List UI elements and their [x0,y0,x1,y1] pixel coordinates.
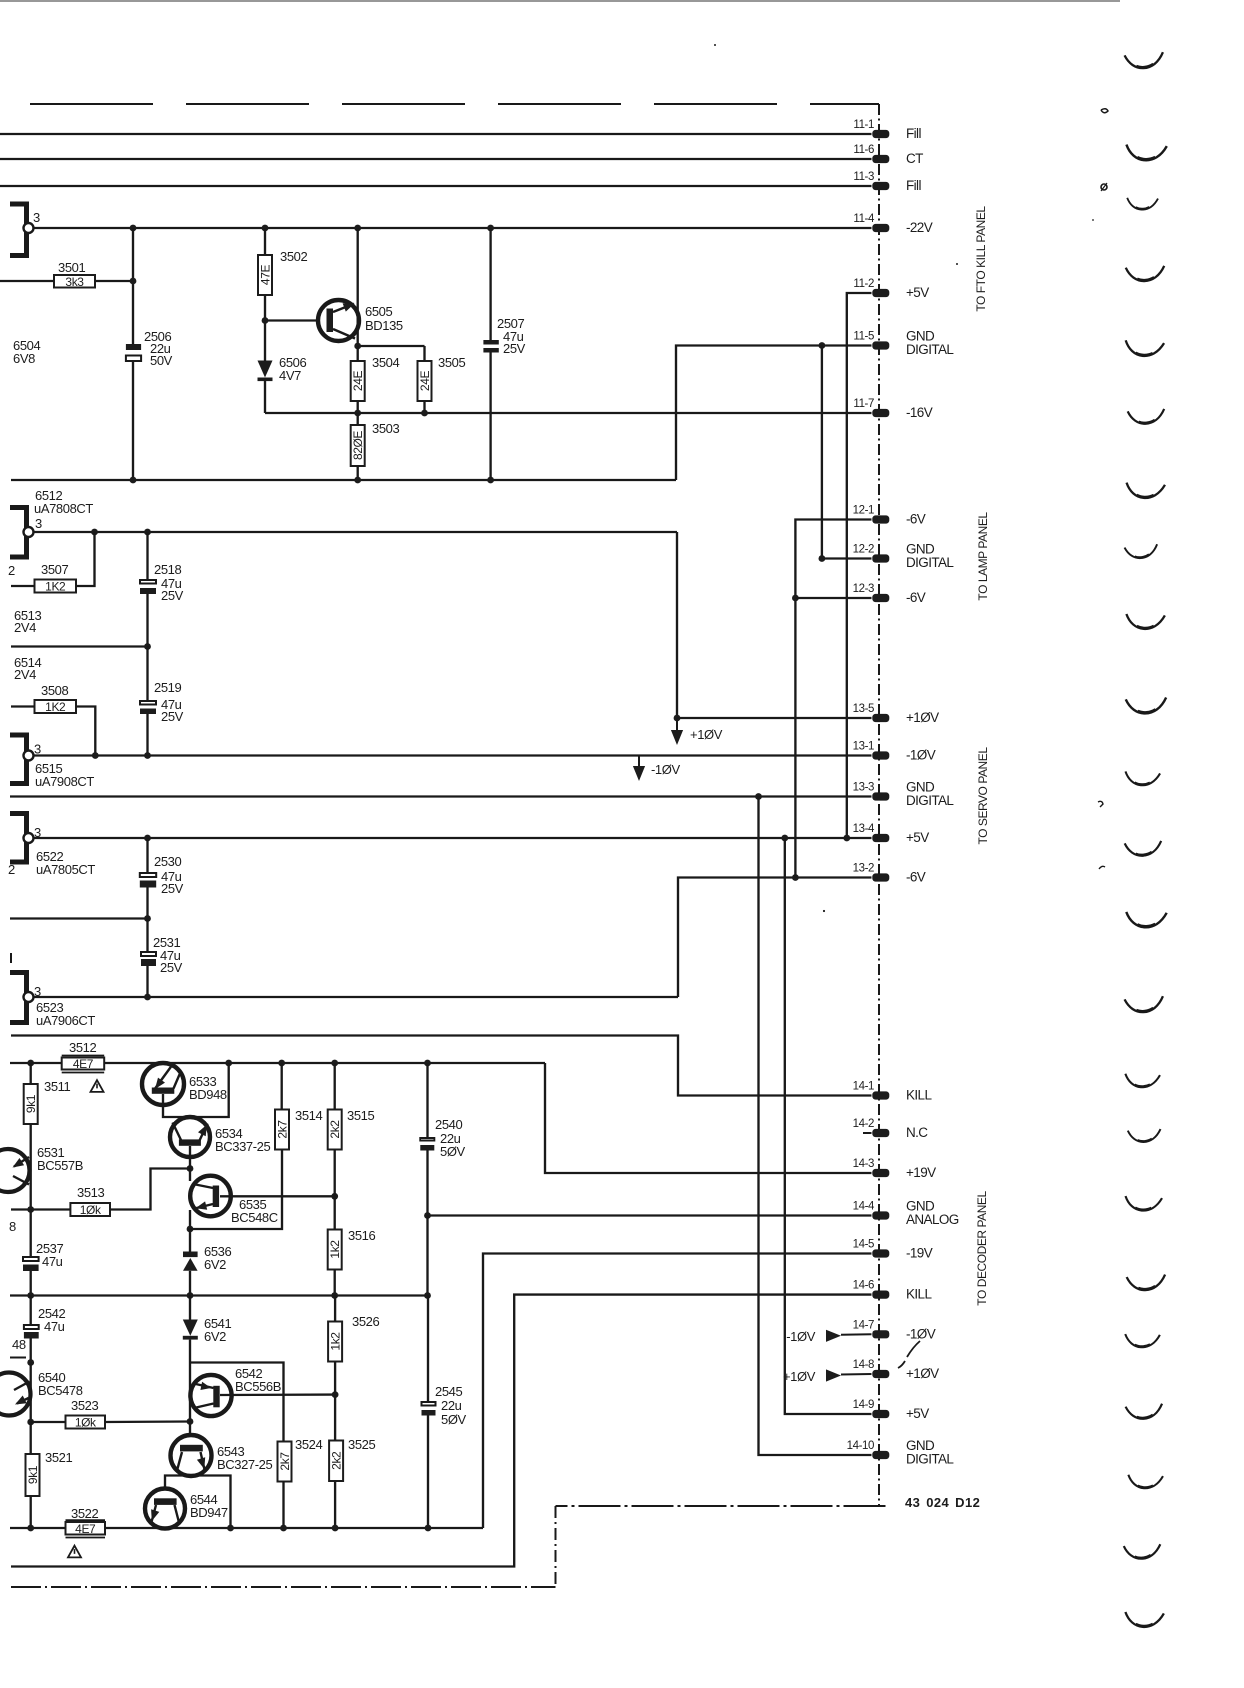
svg-text:13-1: 13-1 [853,741,874,753]
svg-text:3505: 3505 [438,355,465,370]
svg-text:2545: 2545 [435,1384,462,1399]
diode 6536 6V2 zener [183,1229,231,1296]
svg-text:-1ØV: -1ØV [786,1329,815,1344]
svg-text:3503: 3503 [372,421,399,436]
wire 6505 collector/emitter vertical [357,228,359,346]
node 2506 column [130,228,137,480]
wire GND digital main [10,793,872,800]
capacitor 2519 47u 25V [140,647,184,756]
svg-text:14-6: 14-6 [853,1280,874,1292]
svg-text:-22V: -22V [906,220,933,235]
label pin2 partial [8,563,15,578]
svg-text:BC556B: BC556B [235,1379,281,1394]
svg-text:2V4: 2V4 [14,620,36,635]
svg-text:6505: 6505 [365,304,392,319]
wire +19V rail [10,1060,545,1067]
capacitor 2540 22u 50V [420,1063,465,1216]
svg-text:ANALOG: ANALOG [906,1212,959,1227]
svg-text:3516: 3516 [348,1228,375,1243]
connector pin 14-4 GND [853,1199,959,1228]
svg-text:BC337-25: BC337-25 [215,1139,271,1154]
svg-text:5ØV: 5ØV [440,1144,466,1159]
svg-text:1k2: 1k2 [329,1332,343,1351]
svg-text:Fill: Fill [906,178,921,193]
svg-text:3507: 3507 [41,562,68,577]
capacitor 2545 22u 50V [422,1296,467,1529]
wire GND digital riser to pin 14-10 [759,797,872,1456]
svg-text:4V7: 4V7 [279,368,301,383]
svg-text:+5V: +5V [906,830,929,845]
svg-text:14-3: 14-3 [853,1158,874,1170]
arrow +10V to pin 14-8 [783,1369,872,1384]
transistor 6505 BD135 [318,300,403,341]
resistor 3502 47E [258,228,307,321]
resistor 3501 3k3 [0,260,133,289]
svg-text:1Øk: 1Øk [80,1203,102,1217]
svg-text:2k2: 2k2 [330,1451,344,1470]
diode 6506 4V7 zener [258,321,307,384]
connector pin 14-6 KILL [853,1280,933,1302]
wire 6535 collector [189,1169,191,1182]
svg-text:25V: 25V [161,588,184,603]
connector pin 11-2 +5V [853,278,929,300]
regulator 6522 uA7805CT [10,814,95,878]
svg-text:3513: 3513 [77,1185,104,1200]
wire 6512 output to +10V corner [34,529,677,536]
wire Fill to pin 11-3 [0,185,872,187]
connector pin 14-3 +19V [853,1158,937,1180]
svg-text:2k2: 2k2 [328,1120,342,1139]
connector pin 11-7 -16V [853,398,932,420]
frame dash-dot bottom right [556,1505,886,1507]
svg-text:DIGITAL: DIGITAL [906,1452,954,1467]
svg-text:3525: 3525 [348,1437,375,1452]
capacitor 2506 22u 50V [126,329,173,368]
resistor 3522 4E7 (safety) [66,1506,106,1538]
capacitor 2507 47u 25V [483,228,525,480]
wire -6V 6523 output [34,994,678,1001]
svg-text:-6V: -6V [906,870,926,885]
svg-text:2518: 2518 [154,562,181,577]
svg-text:TO DECODER PANEL: TO DECODER PANEL [975,1191,989,1306]
wire CT to pin 11-6 [0,158,872,160]
label 6504 6V8 [13,338,40,366]
regulator 6504 (edge bracket, pin 3) [10,204,40,256]
svg-text:14-9: 14-9 [853,1399,874,1411]
svg-text:13-3: 13-3 [853,782,874,794]
wire GND bus section1 [11,477,676,484]
connector pin 11-5 GND [853,329,954,358]
wire KILL feed to pin 14-6 [11,1295,872,1567]
svg-text:12-3: 12-3 [853,583,874,595]
svg-text:3508: 3508 [41,683,68,698]
svg-text:2V4: 2V4 [14,667,36,682]
connector pin 11-4 -22V [853,213,932,235]
svg-text:11-7: 11-7 [853,398,874,410]
svg-text:DIGITAL: DIGITAL [906,793,954,808]
svg-text:12-1: 12-1 [853,505,874,517]
svg-text:14-5: 14-5 [853,1239,874,1251]
resistor 3526 1k2 [328,1296,379,1395]
wire 6505 base [262,317,318,324]
regulator 6515 uA7908CT [10,735,94,789]
svg-text:9k1: 9k1 [24,1094,38,1113]
svg-text:1Øk: 1Øk [75,1416,97,1430]
wire +5V riser to pin 14-9 [785,838,872,1414]
svg-text:-6V: -6V [906,512,926,527]
svg-text:+5V: +5V [906,1406,929,1421]
wire 6543 base [189,1422,191,1437]
label pin 8 [9,1219,16,1234]
svg-text:11-6: 11-6 [853,144,874,156]
connector pin 14-9 +5V [853,1399,930,1421]
wire GND ANALOG to pin 14-4 [424,1212,871,1219]
wire +5V pin 11-2 riser [843,293,871,841]
svg-text:DIGITAL: DIGITAL [906,342,954,357]
title 43 024 D12 [905,1495,980,1510]
wire -6V to pin 12-3 [795,597,871,599]
wire -22V bus to pin 11-4 [34,225,872,232]
svg-text:11-3: 11-3 [853,171,874,183]
resistor 3512 4E7 (safety) [62,1040,104,1073]
wire 6542 vertical [189,1363,191,1422]
connector pin 14-2 N.C [853,1118,929,1140]
svg-text:3: 3 [33,210,40,225]
svg-text:+1ØV: +1ØV [906,710,939,725]
wire -6V riser to pin 13-2 [678,874,872,997]
svg-text:3: 3 [35,516,42,531]
svg-text:2530: 2530 [154,854,181,869]
wire +19V to pin 14-3 [545,1063,872,1173]
svg-text:6V2: 6V2 [204,1329,226,1344]
frame dash-dot bottom left [11,1586,556,1588]
svg-text:2k7: 2k7 [276,1120,290,1139]
resistor 3523 10k [31,1398,194,1430]
wire stub row 918 [10,915,151,922]
wire KILL from left to pin 14-1 [11,1036,872,1096]
svg-text:2540: 2540 [435,1117,462,1132]
svg-text:1K2: 1K2 [45,580,66,594]
connector pin 11-3 Fill [853,171,921,193]
svg-text:3522: 3522 [71,1506,98,1521]
connector pin 13-4 +5V [853,823,930,845]
wire 3513 row [11,1206,70,1213]
svg-text:48: 48 [12,1337,26,1352]
frame dash-dot top border [30,103,879,105]
svg-text:1k2: 1k2 [328,1240,342,1259]
connector pin 13-3 GND [853,780,955,809]
svg-text:11-2: 11-2 [853,278,874,290]
svg-text:22u: 22u [441,1398,462,1413]
wire 6543/6544 link [165,1476,231,1529]
wire rail2 row [10,1216,431,1299]
svg-text:14-4: 14-4 [853,1201,875,1213]
wire 3513 to 6534 base [110,1165,193,1209]
resistor 3525 2k2 [329,1395,375,1528]
svg-text:BD947: BD947 [190,1505,228,1520]
wire 6533 base loop [163,1063,229,1117]
svg-text:3511: 3511 [44,1079,71,1094]
svg-text:13-5: 13-5 [853,703,874,715]
svg-text:2519: 2519 [154,680,181,695]
wire 6541 to 3524 [190,1363,284,1442]
svg-text:-16V: -16V [906,405,933,420]
svg-text:3526: 3526 [352,1314,379,1329]
svg-text:BC5478: BC5478 [38,1383,83,1398]
transistor 6540 BC547B (edge) [0,1370,83,1416]
svg-text:25V: 25V [161,881,184,896]
svg-text:+19V: +19V [906,1165,936,1180]
svg-text:14-7: 14-7 [853,1319,874,1331]
svg-text:+1ØV: +1ØV [906,1366,939,1381]
svg-text:14-1: 14-1 [853,1081,874,1093]
warning triangle 3522 [68,1546,81,1558]
transistor 6544 BD947 [145,1489,228,1529]
svg-text:11-5: 11-5 [853,331,874,343]
svg-text:-1ØV: -1ØV [906,1326,936,1341]
svg-text:6V2: 6V2 [204,1257,226,1272]
svg-text:3524: 3524 [295,1437,322,1452]
svg-text:-19V: -19V [906,1246,933,1261]
label 6513 2V4 [14,608,41,635]
connector pin 12-3 -6V [853,583,926,605]
svg-text:12-2: 12-2 [853,544,874,556]
svg-text:4E7: 4E7 [73,1057,94,1071]
svg-text:47E: 47E [259,265,273,286]
resistor 3504 24E [351,346,400,413]
resistor 3505 24E [418,346,466,413]
svg-text:24E: 24E [418,371,432,392]
label pin2 partial 6522 [8,862,15,877]
transistor 6535 BC548C [190,1176,278,1225]
connector pin 14-7 -1&#216;V [853,1319,936,1341]
svg-text:43 024 D12: 43 024 D12 [905,1495,980,1510]
svg-text:4E7: 4E7 [75,1522,96,1536]
resistor 3514 2k7 [275,1063,322,1150]
connector pin 12-1 -6V [853,505,926,527]
svg-text:13-4: 13-4 [853,823,875,835]
svg-text:47u: 47u [44,1319,65,1334]
svg-text:3502: 3502 [280,249,307,264]
svg-text:3k3: 3k3 [65,275,84,289]
svg-text:3: 3 [34,742,41,757]
svg-text:-6V: -6V [906,590,926,605]
svg-text:82ØE: 82ØE [351,431,365,460]
diode 6541 6V2 zener [183,1296,232,1363]
svg-text:47u: 47u [42,1254,63,1269]
binding holes column (decorative crescents) [1124,52,1167,1628]
svg-text:BD135: BD135 [365,318,403,333]
resistor 3524 2k7 [278,1437,323,1528]
arrow -10V branch [633,756,681,782]
wire GND riser to pin 11-5 [676,342,872,480]
wire -16V to pin 11-7 [265,410,872,417]
capacitor 2518 47u 25V [140,532,184,647]
svg-text:2: 2 [8,563,15,578]
artifact squiggle near 14-8 [898,1341,920,1368]
svg-text:25V: 25V [161,709,184,724]
panel label TO LAMP PANEL [976,512,990,601]
capacitor 2537 47u [23,1210,63,1296]
svg-text:2: 2 [8,862,15,877]
svg-text:+5V: +5V [906,285,929,300]
svg-text:3521: 3521 [45,1450,72,1465]
svg-text:50V: 50V [150,353,173,368]
resistor 3503 820E [351,413,400,480]
warning triangle 3512 [91,1080,104,1092]
wire Fill to pin 11-1 [0,133,872,135]
svg-text:24E: 24E [351,371,365,392]
transistor 6531 BC557B (edge) [0,1145,83,1192]
regulator 6512 uA7808CT [10,488,93,557]
svg-text:DIGITAL: DIGITAL [906,555,954,570]
svg-text:11-4: 11-4 [853,213,875,225]
svg-text:uA7805CT: uA7805CT [36,862,95,877]
svg-text:14-8: 14-8 [853,1359,874,1371]
wire +10V riser and pin 13-5 [674,532,872,721]
wire zener 6513/6514 row [11,643,151,650]
svg-text:Fill: Fill [906,126,921,141]
wire 6535 base row [220,1193,338,1200]
svg-text:KILL: KILL [906,1287,932,1302]
resistor 3513 10k [70,1185,110,1217]
svg-text:9k1: 9k1 [26,1465,40,1484]
svg-text:8: 8 [9,1219,16,1234]
svg-text:BD948: BD948 [189,1087,227,1102]
capacitor 2531 47u 25V [141,919,183,998]
wire 6540 column [27,1363,34,1426]
svg-text:14-10: 14-10 [847,1440,874,1452]
connector pin 11-6 CT [853,144,923,166]
svg-text:3504: 3504 [372,355,399,370]
svg-text:uA7908CT: uA7908CT [35,774,94,789]
svg-text:CT: CT [906,151,923,166]
connector pin 13-1 -1&#216;V [853,741,936,763]
svg-text:3512: 3512 [69,1040,96,1055]
frame dash-dot bottom step vertical [555,1506,557,1587]
connector pin 14-8 +1&#216;V [853,1359,940,1381]
wire 6542 base row [220,1391,339,1398]
wire -10V to pin 13-1 [34,752,872,759]
arrow -10V to pin 14-7 [786,1329,871,1344]
wire emitter to 3505 [354,343,424,350]
resistor 3521 9k1 [26,1422,73,1528]
svg-text:2k7: 2k7 [278,1452,292,1471]
resistor 3516 1k2 [328,1196,376,1295]
svg-text:14-2: 14-2 [853,1118,874,1130]
svg-text:-1ØV: -1ØV [651,762,680,777]
svg-text:+1ØV: +1ØV [783,1369,816,1384]
arrow +10V branch [671,718,723,745]
wire 6506 to -16V corner [264,380,266,413]
capacitor 2542 47u [24,1296,66,1366]
transistor 6542 BC556B [190,1366,281,1416]
svg-text:3501: 3501 [58,260,85,275]
transistor 6543 BC327-25 [171,1435,273,1476]
svg-text:TO LAMP PANEL: TO LAMP PANEL [976,512,990,601]
wire +5V to pin 13-4 [34,835,872,842]
svg-text:3514: 3514 [295,1108,322,1123]
resistor 3508 1K2 [11,683,95,756]
svg-text:+1ØV: +1ØV [690,727,723,742]
svg-text:3515: 3515 [347,1108,374,1123]
transistor 6534 BC337-25 [170,1117,271,1169]
svg-text:uA7808CT: uA7808CT [34,501,93,516]
svg-text:5ØV: 5ØV [441,1412,467,1427]
connector pin 13-2 -6V [853,863,926,885]
wire rail3 -19V row [10,1525,483,1532]
svg-text:-1ØV: -1ØV [906,748,936,763]
svg-text:13-2: 13-2 [853,863,874,875]
connector pin 12-2 GND [853,542,955,571]
svg-text:3523: 3523 [71,1398,98,1413]
wire GND branch to pin 12-2 [819,346,872,562]
panel label TO SERVO PANEL [976,747,990,845]
tick mark left edge [10,953,12,963]
svg-text:6V8: 6V8 [13,351,35,366]
panel label TO DECODER PANEL [975,1191,989,1306]
svg-text:BC327-25: BC327-25 [217,1457,273,1472]
connector pin 13-5 +1&#216;V [853,703,940,725]
connector pin 14-10 GND [847,1438,955,1467]
svg-text:11-1: 11-1 [853,119,874,131]
resistor 3507 1K2 [11,532,95,594]
svg-text:uA7906CT: uA7906CT [36,1013,95,1028]
svg-text:TO SERVO PANEL: TO SERVO PANEL [976,747,990,845]
wire stub pin 14-2 N.C [863,1132,872,1134]
svg-text:25V: 25V [160,960,183,975]
connector pin 11-1 Fill [853,119,921,141]
capacitor 2530 47u 25V [140,838,184,919]
wire -19V riser to pin 14-5 [483,1254,872,1529]
connector pin 14-5 -19V [853,1239,933,1261]
wire -6V pins 12-1/12-3 link [792,520,872,878]
connector pin 14-1 KILL [853,1081,933,1103]
regulator 6523 uA7906CT [10,973,95,1029]
resistor 3511 9k1 [24,1063,71,1210]
label 6514 2V4 [14,655,41,682]
frame dash-dot right connector line [878,104,880,1506]
svg-text:25V: 25V [503,341,526,356]
panel label TO FTO KILL PANEL [974,206,988,312]
svg-text:N.C: N.C [906,1125,928,1140]
label 48 and tick [10,1337,26,1358]
svg-text:TO FTO KILL PANEL: TO FTO KILL PANEL [974,206,988,312]
wire 6535 emitter to 3514 [187,1150,282,1233]
resistor 3515 2k2 [328,1063,375,1196]
svg-text:KILL: KILL [906,1088,932,1103]
svg-text:BC548C: BC548C [231,1210,278,1225]
transistor 6533 BD948 [142,1063,227,1105]
scan artifacts right margin [714,44,1108,912]
svg-text:BC557B: BC557B [37,1158,83,1173]
svg-text:1K2: 1K2 [45,700,66,714]
